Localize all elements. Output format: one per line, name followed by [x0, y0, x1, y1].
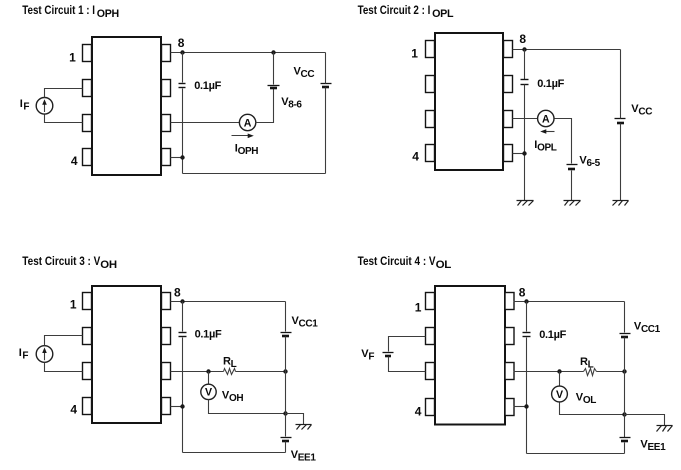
pin 3	[426, 111, 435, 128]
wire node to voltmeter	[208, 372, 210, 385]
battery VCC1	[281, 332, 292, 334]
wire cap branch lower	[526, 338, 528, 454]
pin 7	[162, 328, 171, 345]
wire bottom return	[183, 452, 286, 454]
pin 2	[83, 328, 92, 345]
pin 1	[83, 45, 92, 62]
wire node to voltmeter	[559, 372, 561, 387]
svg-text:A: A	[244, 117, 252, 129]
battery V8-6	[268, 85, 280, 87]
resistor RL	[224, 369, 236, 375]
svg-text:Test Circuit 1 : IOPH: Test Circuit 1 : IOPH	[22, 4, 119, 20]
svg-text:Test Circuit 4 : VOL: Test Circuit 4 : VOL	[358, 255, 452, 271]
pin 8	[162, 293, 171, 310]
battery VCC	[615, 118, 626, 120]
pin 3	[83, 363, 92, 380]
pin 6	[504, 111, 513, 128]
svg-text:VCC1: VCC1	[634, 320, 661, 335]
IC U1 body	[92, 37, 161, 175]
resistor RL	[584, 369, 597, 376]
wire IF top to pin 2	[45, 336, 83, 346]
node RL left	[206, 369, 210, 373]
wire cap branch upper	[526, 302, 528, 332]
pin 8	[162, 45, 171, 62]
pin 3	[83, 115, 92, 132]
node RL left	[557, 369, 561, 373]
wire pin 5 stub	[171, 406, 183, 408]
svg-text:Test Circuit 2 : IOPL: Test Circuit 2 : IOPL	[358, 4, 454, 20]
svg-text:V: V	[205, 387, 212, 399]
svg-text:VCC: VCC	[631, 103, 652, 118]
current arrow IOPH	[232, 135, 250, 137]
battery VEE1	[620, 437, 631, 439]
svg-text:4: 4	[71, 154, 78, 168]
wire pin 6 to RL	[171, 371, 224, 373]
battery VEE1	[281, 437, 292, 439]
svg-text:8: 8	[174, 285, 181, 299]
ground 2	[564, 201, 581, 206]
svg-text:V8-6: V8-6	[281, 96, 302, 111]
IC U4 body	[435, 286, 505, 425]
node at pin 5	[522, 151, 526, 155]
pin 4	[426, 145, 435, 162]
wire VCC1 rail upper	[624, 302, 626, 333]
battery VF	[383, 352, 394, 354]
svg-text:IF: IF	[20, 98, 30, 113]
node rail lower	[283, 411, 287, 415]
pin 7	[505, 328, 514, 345]
svg-text:4: 4	[415, 405, 422, 419]
pin 5	[504, 145, 513, 162]
svg-text:4: 4	[412, 149, 419, 163]
wire cap branch upper	[524, 50, 526, 80]
voltmeter V	[552, 386, 568, 402]
wire ammeter to V6-5	[555, 119, 572, 164]
battery VCC	[321, 83, 332, 85]
svg-text:8: 8	[178, 36, 185, 50]
svg-text:Test Circuit 3 : VOH: Test Circuit 3 : VOH	[22, 255, 117, 271]
current source IF circle	[36, 346, 53, 363]
pin 2	[83, 80, 92, 97]
ground	[286, 414, 304, 425]
svg-text:8: 8	[519, 32, 526, 46]
wire cap branch upper	[182, 53, 184, 83]
svg-text:0.1µF: 0.1µF	[539, 329, 566, 341]
svg-text:VOL: VOL	[576, 391, 596, 406]
wire VCC rail upper	[325, 53, 327, 84]
svg-text:A: A	[542, 113, 550, 125]
svg-text:RL: RL	[580, 356, 594, 371]
pin 7	[162, 80, 171, 97]
wire VF top to pin 2	[389, 337, 426, 352]
wire VCC1 rail middle	[285, 337, 287, 437]
wire VEE1 to bottom	[624, 443, 626, 454]
pin 8	[505, 293, 514, 310]
battery VCC1	[620, 333, 631, 335]
svg-text:V: V	[556, 389, 563, 401]
pin 3	[426, 363, 435, 380]
node at pin 8	[180, 50, 184, 54]
wire V6-5 to ground	[571, 171, 573, 201]
svg-text:4: 4	[70, 402, 77, 416]
pin 7	[504, 76, 513, 93]
pin 4	[83, 149, 92, 166]
svg-text:8: 8	[519, 285, 526, 299]
pin 4	[426, 399, 435, 416]
svg-text:V6-5: V6-5	[579, 155, 600, 170]
svg-text:0.1µF: 0.1µF	[537, 78, 564, 90]
wire VCC rail upper	[620, 50, 622, 119]
wire voltmeter to rail	[209, 400, 286, 414]
pin 2	[426, 328, 435, 345]
ammeter A	[538, 110, 554, 126]
ground	[625, 415, 665, 426]
svg-text:IOPL: IOPL	[534, 139, 557, 154]
current source IF circle	[36, 98, 53, 115]
svg-text:VF: VF	[361, 348, 374, 363]
node at pin 5	[524, 404, 528, 408]
pin 5	[162, 398, 171, 415]
current arrow IOPL	[545, 131, 555, 133]
wire pin 8 to VCC1 rail	[171, 301, 286, 303]
pin 8	[504, 41, 513, 58]
svg-text:VCC: VCC	[294, 66, 315, 81]
capacitor 0.1uF	[521, 79, 529, 81]
capacitor 0.1uF	[179, 332, 187, 334]
svg-text:0.1µF: 0.1µF	[195, 329, 222, 341]
svg-text:1: 1	[70, 298, 77, 312]
wire IF bottom to pin 3	[45, 363, 83, 372]
wire RL right	[597, 371, 625, 373]
wire pin 6 to RL	[514, 371, 584, 373]
node RL right	[283, 369, 287, 373]
ground 3	[613, 201, 629, 206]
IC U2 body	[435, 33, 503, 170]
wire VF bottom to pin 3	[389, 357, 426, 372]
wire pin 5 stub	[513, 153, 525, 155]
svg-text:1: 1	[415, 300, 422, 314]
voltmeter V	[201, 384, 216, 399]
wire V8-6 top	[273, 53, 275, 85]
wire pin 8 to VCC rail	[171, 52, 326, 54]
wire pin 5 stub	[171, 157, 183, 159]
node at pin 5	[180, 155, 184, 159]
wire pin 8 to VCC rail	[513, 49, 621, 51]
wire cap branch upper	[182, 302, 184, 332]
svg-text:0.1µF: 0.1µF	[194, 80, 221, 92]
wire bottom return	[527, 453, 625, 455]
current source IF arrow	[44, 351, 46, 361]
wire cap branch lower	[182, 338, 184, 453]
wire VEE1 to bottom	[285, 442, 287, 453]
wire voltmeter to rail	[560, 403, 625, 415]
node rail lower	[622, 412, 626, 416]
svg-text:IOPH: IOPH	[235, 143, 259, 158]
pin 6	[162, 115, 171, 132]
wire cap branch lower	[182, 89, 184, 174]
wire ammeter to V8-6	[256, 89, 274, 123]
svg-text:VOH: VOH	[222, 389, 243, 404]
pin 1	[426, 41, 435, 58]
svg-text:1: 1	[69, 50, 76, 64]
pin 1	[426, 293, 435, 310]
node at pin 5	[180, 404, 184, 408]
wire pin 6 to ammeter	[513, 118, 538, 120]
ground 1	[517, 201, 534, 206]
pin 2	[426, 76, 435, 93]
pin 5	[505, 399, 514, 416]
svg-text:1: 1	[411, 46, 418, 60]
battery V6-5	[567, 164, 578, 166]
wire VCC rail lower	[325, 88, 327, 174]
wire VCC1 rail middle	[624, 338, 626, 438]
pin 1	[83, 293, 92, 310]
wire IF top to pin 2	[45, 89, 83, 98]
wire pin 5 stub	[514, 406, 527, 408]
wire IF bottom to pin 3	[45, 115, 83, 123]
pin 6	[162, 363, 171, 380]
node at pin 8	[180, 299, 184, 303]
wire pin 8 to VCC1 rail	[514, 301, 625, 303]
node at pin 8	[522, 47, 526, 51]
pin 4	[83, 398, 92, 415]
svg-text:VCC1: VCC1	[292, 315, 319, 330]
wire pin 6 to ammeter	[171, 122, 240, 124]
node at pin 8	[524, 299, 528, 303]
ammeter A	[239, 114, 255, 130]
svg-text:RL: RL	[223, 356, 237, 371]
svg-text:IF: IF	[19, 347, 29, 362]
node at V8-6 top	[271, 50, 275, 54]
wire VCC rail lower to ground	[620, 124, 622, 201]
wire VCC1 rail upper	[285, 302, 287, 332]
capacitor 0.1uF	[523, 332, 531, 334]
current source IF arrow	[44, 103, 46, 113]
wire RL right	[236, 371, 286, 373]
wire bottom return	[183, 173, 326, 175]
svg-text:VEE1: VEE1	[640, 439, 666, 454]
svg-text:VEE1: VEE1	[291, 449, 317, 464]
IC U3 body	[92, 286, 161, 423]
pin 5	[162, 149, 171, 166]
capacitor 0.1uF	[179, 83, 186, 85]
node RL right	[622, 369, 626, 373]
wire cap branch lower to ground	[524, 85, 526, 201]
pin 6	[505, 363, 514, 380]
